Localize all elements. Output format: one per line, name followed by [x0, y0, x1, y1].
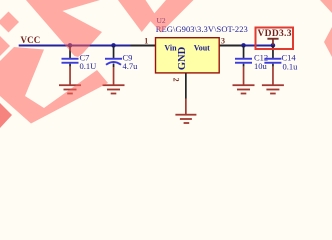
svg-text:Vout: Vout	[194, 43, 210, 52]
svg-text:1: 1	[144, 36, 148, 45]
svg-text:Vin: Vin	[164, 43, 177, 52]
svg-text:VCC: VCC	[21, 35, 41, 45]
svg-text:REG\G903\3.3V\SOT-223: REG\G903\3.3V\SOT-223	[156, 24, 248, 34]
svg-text:0.1u: 0.1u	[283, 61, 299, 71]
svg-text:3: 3	[221, 36, 225, 45]
svg-text:4.7u: 4.7u	[123, 61, 139, 71]
svg-text:VDD3.3: VDD3.3	[258, 29, 292, 39]
svg-text:0.1U: 0.1U	[80, 61, 97, 71]
svg-text:GND: GND	[177, 46, 188, 70]
svg-text:2: 2	[172, 78, 181, 82]
